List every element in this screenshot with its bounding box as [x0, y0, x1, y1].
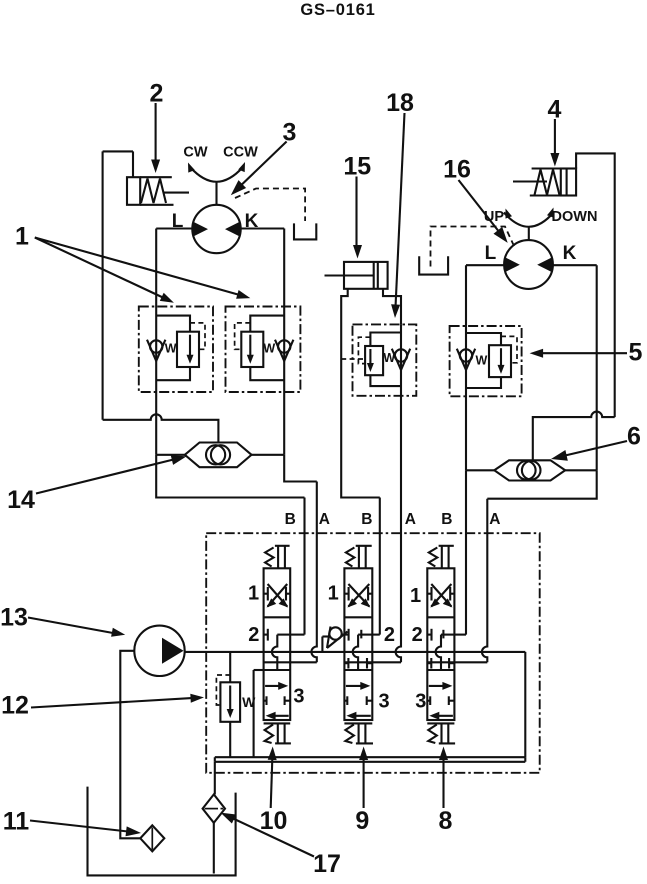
- spool valve V3 position-3 left arrow: [434, 715, 453, 717]
- filter 17 (return filter diamond): [203, 794, 225, 822]
- svg-text:B: B: [285, 511, 296, 528]
- spool valve V2 bottom actuator box: [358, 723, 360, 743]
- spool valve V3 bypass ticks: [427, 662, 431, 664]
- motor M2 direction arc: [504, 213, 554, 227]
- pump 13 triangle: [162, 638, 184, 664]
- label 2 arrow: [155, 103, 157, 161]
- label 8 arrow: [442, 759, 444, 808]
- spool valve V1 position-3 right arrow: [265, 685, 283, 687]
- relief valve pilot dashed line: [358, 337, 370, 363]
- svg-text:1: 1: [248, 583, 259, 605]
- wire solenoid-2 pilot line down-left side: [102, 151, 104, 419]
- spool valve V3 position-3 port ticks: [427, 700, 430, 702]
- svg-text:A: A: [489, 511, 500, 528]
- wire K2 vertical down to shuttle 6: [596, 265, 598, 470]
- label 16 arrow: [459, 180, 501, 233]
- wire from solenoid-4 net to shuttle 6 top (with crossover bump): [533, 412, 615, 462]
- pump suction line: [120, 651, 140, 839]
- spool valve V1 position-2 internal passage: [277, 634, 290, 636]
- svg-text:L: L: [485, 243, 497, 264]
- svg-text:2: 2: [412, 624, 423, 646]
- spool valve V3 top actuator box: [439, 545, 454, 547]
- spool valve V1 position-2 left port tick: [264, 634, 268, 636]
- label 3 arrow: [240, 142, 287, 187]
- wire brake cylinder right port to A2 feeder: [383, 289, 401, 325]
- spool valve V2 position-2 left port tick: [344, 634, 348, 636]
- spool valve V3 position-2 right port tick: [442, 630, 444, 639]
- svg-text:8: 8: [438, 807, 452, 835]
- spool valve V2 position-3 port ticks: [344, 700, 347, 702]
- spool valve V3 bottom actuator box: [440, 723, 442, 743]
- wire B3 feed: [454, 634, 466, 636]
- label 1 arrow to block R2: [35, 238, 242, 296]
- tank T1: [294, 223, 316, 239]
- wire K1 vertical through relief block: [283, 229, 285, 455]
- svg-text:B: B: [361, 511, 372, 528]
- motor M1 right triangle: [225, 222, 240, 237]
- relief valve branch bottom: [250, 367, 284, 380]
- svg-text:14: 14: [7, 486, 35, 514]
- check valve (circle): [460, 349, 472, 361]
- motor M2 stem: [528, 227, 530, 242]
- relief valve internal arrow: [189, 335, 191, 358]
- wire B1 feed: [303, 498, 305, 635]
- svg-text:W: W: [383, 351, 395, 365]
- relief valve body: [177, 332, 199, 367]
- svg-text:5: 5: [629, 339, 643, 367]
- wire A2 through block R3: [400, 324, 402, 395]
- check valve CV2 (pump rail to valve V2): [329, 627, 341, 639]
- relief block R4 border (dash-dot): [450, 326, 522, 396]
- spool valve V2 top actuator box: [356, 545, 372, 547]
- wire from solenoid 2 to left net: [132, 151, 134, 177]
- wire L2 down to valve bank port B3: [465, 470, 467, 634]
- wire from solenoid 4 to right net: [576, 153, 615, 417]
- svg-text:W: W: [263, 342, 275, 356]
- svg-text:2: 2: [384, 624, 395, 646]
- motor M2 left triangle: [505, 257, 520, 272]
- spool valve V1 tank return line: [253, 670, 255, 757]
- relief valve pilot dashed line: [190, 323, 205, 349]
- wire shuttle 14 right port to K1: [252, 454, 285, 456]
- spool valve V2 position-2 right port tick: [360, 630, 362, 639]
- spool valve V2 work-port line at 662: [344, 661, 401, 663]
- motor M1 stem: [215, 182, 217, 206]
- svg-text:A: A: [405, 511, 416, 528]
- brake cylinder rod line: [325, 274, 374, 276]
- valve bank border (dash-dot): [206, 533, 540, 773]
- check valve (circle): [395, 349, 407, 361]
- drain dashed line motor M2 to tank T2: [431, 227, 515, 269]
- relief valve branch bottom: [370, 375, 401, 386]
- spool valve V1 position-1 crossed arrows: [268, 584, 288, 607]
- wire A2 feed (jog over rail): [396, 396, 401, 663]
- reservoir (tank): [88, 787, 236, 876]
- wire K2 down to A3 jog: [487, 470, 596, 498]
- spool valve V2 position-3 left arrow: [351, 715, 370, 717]
- check valve seat: [147, 340, 165, 361]
- label 11 arrow: [30, 821, 128, 832]
- shuttle valve 14 balls (two circles): [206, 445, 225, 464]
- wire L2 vertical through relief block R4: [465, 265, 467, 470]
- shuttle valve 6 balls (two circles): [517, 461, 536, 480]
- drain dashed line motor M1 to tank T1: [235, 189, 305, 222]
- filter 11 (suction strainer diamond): [140, 825, 164, 851]
- label 6 arrow: [563, 441, 627, 456]
- spool valve V3 position-2 left port tick: [427, 634, 431, 636]
- svg-text:W: W: [165, 342, 177, 356]
- svg-text:K: K: [563, 243, 577, 264]
- svg-text:3: 3: [293, 686, 304, 708]
- check valve seat: [392, 349, 410, 370]
- label 1 arrow to block R1: [35, 238, 165, 299]
- spool valve V1 bottom actuator box: [277, 723, 279, 743]
- svg-text:17: 17: [313, 850, 341, 878]
- label 12 arrow: [31, 698, 192, 707]
- motor M1 left triangle: [193, 222, 208, 237]
- label 13 arrow: [28, 618, 113, 634]
- svg-text:18: 18: [386, 89, 414, 117]
- relief block R3 border (dash-dot): [353, 324, 417, 395]
- wire L1 down to B1 jog: [156, 455, 304, 498]
- wire motor M1 port L: [156, 227, 192, 229]
- spool valve V3 body: [427, 568, 454, 720]
- svg-text:1: 1: [410, 585, 421, 607]
- hydraulic motor M1: [192, 205, 240, 253]
- relief block R1 border (dash-dot): [139, 307, 213, 393]
- hydraulic pump 13: [134, 626, 184, 676]
- relief valve 12 body: [220, 682, 240, 722]
- wire motor M2 port L: [466, 264, 504, 266]
- svg-text:W: W: [242, 694, 256, 710]
- label 5 arrow: [542, 352, 627, 354]
- relief valve branch top: [370, 333, 401, 347]
- svg-text:W: W: [475, 354, 487, 368]
- spool valve V1 bottom spring: [265, 725, 274, 744]
- spool valve V1 position-1 port ticks: [264, 593, 268, 595]
- relief R3 pilot dashed to B2 feeder: [341, 358, 365, 360]
- svg-text:12: 12: [1, 692, 29, 720]
- shuttle valve 6 body (hexagon): [494, 460, 565, 480]
- spool valve V2 bypass ticks: [344, 662, 348, 664]
- label 17 arrow: [231, 818, 314, 857]
- wire shuttle 6 right port to K2: [565, 469, 597, 471]
- svg-text:13: 13: [0, 604, 28, 632]
- label 14 arrow: [36, 460, 174, 494]
- spool valve V1 top actuator box: [275, 545, 290, 547]
- wire rail to relief 12: [229, 652, 231, 682]
- spool valve V1 body: [264, 568, 291, 720]
- svg-text:1: 1: [328, 583, 339, 605]
- svg-text:16: 16: [443, 156, 471, 184]
- shuttle valve 14 body (hexagon): [185, 443, 252, 468]
- motor M1 direction arc: [191, 168, 243, 182]
- svg-text:9: 9: [355, 807, 369, 835]
- svg-text:3: 3: [378, 691, 389, 713]
- spool valve V2 position-1 crossed arrows: [348, 584, 369, 607]
- relief valve body: [241, 332, 263, 367]
- spool valve V3 position-3 right arrow: [429, 685, 448, 687]
- svg-text:A: A: [319, 511, 330, 528]
- svg-text:DOWN: DOWN: [552, 209, 598, 225]
- spool valve V3 position-1 crossed arrows: [431, 584, 451, 607]
- spool valve V3 work-port line at 662: [427, 661, 487, 663]
- wire L2 to shuttle 6 left port: [466, 469, 494, 471]
- check valve seat: [275, 340, 293, 361]
- brake cylinder (15): [344, 262, 388, 289]
- svg-text:3: 3: [415, 691, 426, 713]
- spool valve V1 position-3 left arrow: [271, 715, 289, 717]
- relief valve pilot dashed line: [235, 323, 251, 349]
- relief valve branch top: [250, 316, 284, 332]
- wire motor M2 port K: [553, 264, 597, 266]
- tank T2: [419, 256, 448, 274]
- relief valve 12 internal arrow: [229, 686, 231, 712]
- spool valve V1 work-port line at 662: [264, 661, 317, 663]
- spool valve V1 position-3 port ticks: [264, 700, 267, 702]
- wire A1 feed (jog over rail): [311, 482, 316, 663]
- tank return manifold strip: [215, 757, 526, 762]
- spool valve V2 position-2 internal passage: [358, 634, 372, 636]
- svg-text:10: 10: [260, 807, 288, 835]
- label 9 arrow: [363, 759, 365, 808]
- svg-text:15: 15: [343, 153, 371, 181]
- check valve seat: [457, 349, 475, 370]
- relief valve branch top: [466, 333, 501, 345]
- relief valve internal arrow: [249, 335, 251, 358]
- svg-text:2: 2: [248, 624, 259, 646]
- hydraulic motor M2: [504, 240, 553, 289]
- wire from solenoid-2 net to shuttle 14 top (with crossover bump): [103, 414, 219, 442]
- spool valve V3 position-2 internal passage: [441, 634, 454, 636]
- spool valve V2 position-1 port ticks: [344, 593, 348, 595]
- svg-text:UP: UP: [484, 209, 504, 225]
- relief valve 12 pilot dashed box: [216, 675, 230, 705]
- relief valve branch bottom: [156, 367, 190, 380]
- svg-text:1: 1: [15, 223, 29, 251]
- spool valve V3 bottom spring: [428, 725, 437, 744]
- wire L1 vertical through relief block: [155, 229, 157, 455]
- relief valve internal arrow: [369, 349, 371, 366]
- spool valve V1 top spring: [265, 548, 274, 567]
- spool valve V3 position-1 port ticks: [427, 593, 431, 595]
- label 15 arrow: [355, 177, 357, 250]
- svg-text:11: 11: [3, 808, 30, 836]
- label 4 arrow: [554, 119, 556, 157]
- spool valve V3 top spring: [429, 548, 438, 567]
- wire filter 17 into tank: [213, 823, 215, 874]
- svg-text:CW: CW: [183, 145, 207, 161]
- wire manifold to filter 17: [214, 762, 216, 795]
- wire motor M1 port K: [241, 227, 285, 229]
- wire rail right end down to manifold: [524, 652, 526, 757]
- svg-text:B: B: [441, 511, 452, 528]
- relief valve branch top: [156, 316, 190, 332]
- motor M2 right triangle: [537, 257, 552, 272]
- relief valve internal arrow: [500, 348, 502, 368]
- label 10 arrow: [271, 759, 273, 808]
- relief block R2 border (dash-dot): [226, 307, 301, 393]
- wire relief 12 to manifold: [229, 722, 231, 757]
- check valve (circle): [278, 340, 290, 352]
- relief valve body: [489, 345, 511, 377]
- relief valve body: [365, 346, 383, 375]
- solenoid valve 2 (brake solenoid): [127, 177, 140, 205]
- wire brake cylinder left port to B2 feeder: [341, 289, 380, 498]
- spool valve V2 bottom spring: [345, 725, 354, 744]
- wire A3 feed (jog over rail): [482, 499, 487, 663]
- relief valve branch bottom: [466, 377, 501, 388]
- spool valve V2 body: [344, 568, 372, 720]
- wire K1 down to A1 jog: [284, 455, 317, 482]
- check valve (circle): [150, 340, 162, 352]
- pump supply rail: [185, 651, 526, 653]
- wire L1 to shuttle 14 left port: [156, 454, 185, 456]
- svg-text:6: 6: [627, 423, 641, 451]
- spool valve V2 position-3 right arrow: [346, 685, 365, 687]
- solenoid valve 4 (brake solenoid): [561, 169, 576, 196]
- svg-text:CCW: CCW: [223, 145, 258, 161]
- svg-text:GS–0161: GS–0161: [300, 1, 375, 19]
- relief valve pilot dashed line: [501, 336, 517, 362]
- label 18 arrow: [396, 113, 405, 305]
- wire B2 feed: [379, 498, 381, 635]
- spool valve V2 top spring: [346, 548, 355, 567]
